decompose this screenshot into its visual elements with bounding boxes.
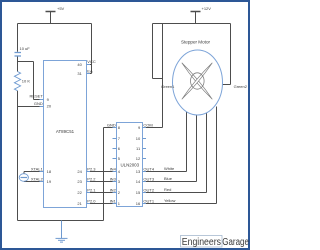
svg-text:OUT4: OUT4: [143, 166, 154, 171]
svg-text:16: 16: [136, 201, 141, 206]
svg-text:21: 21: [77, 201, 82, 206]
svg-text:20: 20: [47, 104, 52, 109]
svg-text:AT89C51: AT89C51: [56, 129, 75, 134]
svg-text:XTAL1: XTAL1: [31, 166, 44, 171]
svg-text:Yellow: Yellow: [164, 198, 176, 203]
svg-text:12: 12: [136, 156, 141, 161]
svg-text:23: 23: [77, 179, 82, 184]
svg-text:EA: EA: [87, 68, 93, 73]
svg-text:RESET: RESET: [29, 94, 43, 99]
svg-text:Blue: Blue: [164, 176, 173, 181]
svg-text:18: 18: [47, 169, 52, 174]
svg-text:14: 14: [136, 179, 141, 184]
svg-text:Garage: Garage: [222, 237, 249, 248]
svg-text:31: 31: [77, 71, 82, 76]
svg-text:P2.3: P2.3: [87, 166, 96, 171]
svg-text:13: 13: [136, 169, 141, 174]
svg-text:VCC: VCC: [87, 59, 96, 64]
svg-text:ULN2003: ULN2003: [121, 162, 140, 167]
svg-text:OUT1: OUT1: [143, 198, 154, 203]
svg-text:40: 40: [77, 62, 82, 67]
svg-text:P2.1: P2.1: [87, 187, 96, 192]
svg-text:XTAL2: XTAL2: [31, 176, 44, 181]
svg-text:22: 22: [77, 190, 82, 195]
svg-text:15: 15: [136, 190, 141, 195]
svg-text:19: 19: [47, 179, 52, 184]
svg-text:OUT3: OUT3: [143, 176, 154, 181]
svg-text:+5V: +5V: [57, 6, 65, 11]
svg-text:Engineers: Engineers: [182, 237, 221, 248]
svg-text:10 uF: 10 uF: [20, 46, 31, 51]
svg-text:+12V: +12V: [202, 6, 212, 11]
svg-text:IN1: IN1: [110, 198, 117, 203]
svg-text:COM: COM: [143, 122, 152, 127]
svg-text:P2.2: P2.2: [87, 176, 96, 181]
svg-text:White: White: [164, 166, 175, 171]
svg-text:Stepper Motor: Stepper Motor: [181, 40, 211, 45]
svg-text:P2.0: P2.0: [87, 198, 96, 203]
svg-text:OUT2: OUT2: [143, 187, 154, 192]
svg-text:Green1: Green1: [161, 84, 175, 89]
svg-text:IN4: IN4: [110, 166, 117, 171]
svg-text:24: 24: [77, 169, 82, 174]
svg-text:Red: Red: [164, 187, 171, 192]
svg-text:10: 10: [136, 136, 141, 141]
svg-text:Green2: Green2: [234, 84, 248, 89]
svg-text:IN2: IN2: [110, 187, 117, 192]
svg-text:IN3: IN3: [110, 176, 117, 181]
svg-text:10 K: 10 K: [22, 79, 31, 84]
svg-text:GND: GND: [107, 122, 116, 127]
svg-text:GND: GND: [34, 101, 43, 106]
